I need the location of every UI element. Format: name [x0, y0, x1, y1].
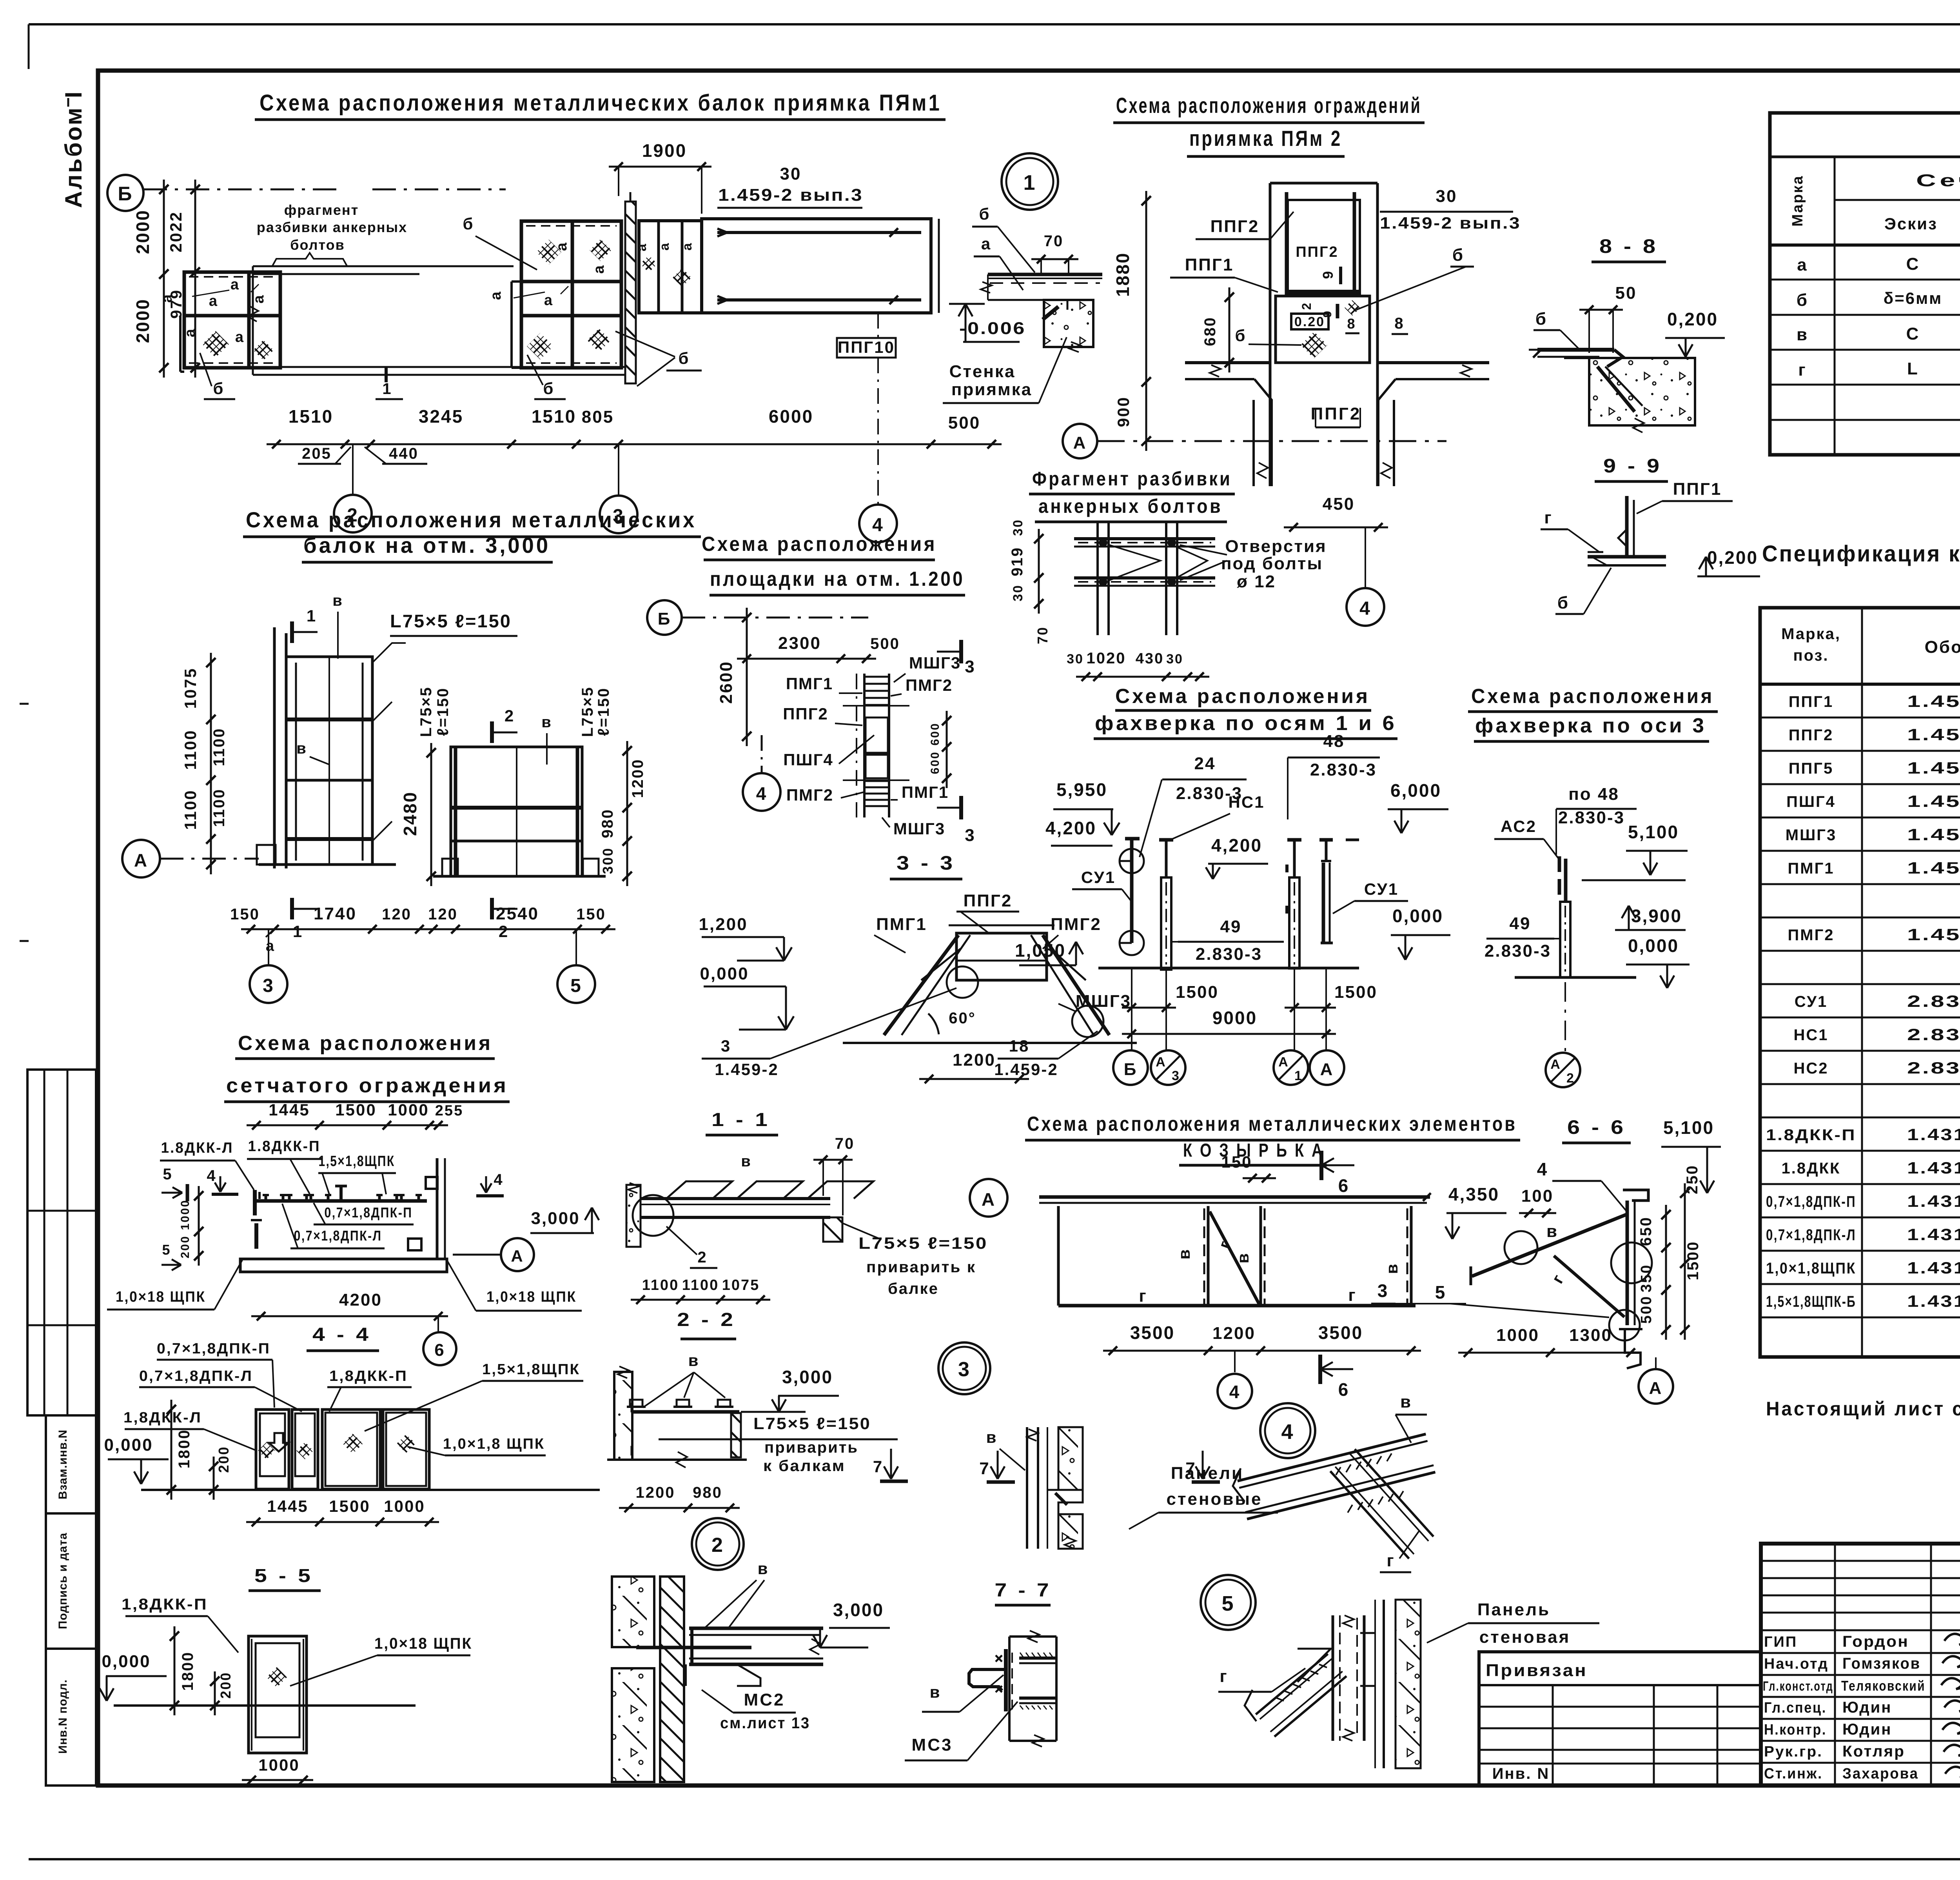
svg-text:3,900: 3,900: [1631, 906, 1682, 926]
svg-text:1200: 1200: [629, 759, 646, 798]
svg-text:0,7×1,8ДПК-П: 0,7×1,8ДПК-П: [1766, 1193, 1856, 1210]
svg-text:ППГ2: ППГ2: [1311, 404, 1361, 423]
section mark 1 frame A: [292, 607, 318, 941]
left bolt cluster: [180, 272, 280, 372]
hatch small cluster: [640, 255, 691, 287]
dim 450: [1284, 494, 1388, 588]
label dkk 5-5: [122, 1596, 238, 1653]
svg-text:а: а: [250, 294, 267, 303]
label 48 ref right: [1288, 732, 1380, 819]
frame B elevation: [433, 747, 606, 876]
svg-text:3,000: 3,000: [531, 1209, 580, 1228]
svg-text:а: а: [235, 329, 245, 345]
kozyrek flag 6 top: [1321, 1151, 1354, 1196]
svg-text:1.431-10: 1.431-10: [1907, 1192, 1960, 1210]
svg-text:1,050: 1,050: [1015, 940, 1066, 961]
svg-text:0,7×1,8ДПК-Л: 0,7×1,8ДПК-Л: [139, 1368, 253, 1384]
pyam2 channel walls: [1270, 183, 1377, 486]
svg-text:1900: 1900: [642, 140, 687, 161]
kozyrek dims bottom: [1103, 1322, 1421, 1355]
svg-text:60°: 60°: [949, 1010, 976, 1027]
svg-text:а: а: [159, 293, 175, 303]
svg-text:А: А: [1156, 1055, 1167, 1070]
svg-text:7: 7: [1185, 1459, 1196, 1478]
level 3000 2-2: [741, 1367, 839, 1412]
svg-text:1.431-10: 1.431-10: [1907, 1125, 1960, 1144]
svg-text:4200: 4200: [339, 1290, 382, 1310]
node circle 4 big: [1260, 1403, 1315, 1458]
label v MC3: [922, 1675, 1004, 1712]
ref 30 right: [1380, 187, 1521, 232]
axis circle 5: [557, 929, 595, 1003]
svg-text:680: 680: [1201, 316, 1219, 346]
spec row shpk: [1766, 1259, 1960, 1277]
svg-text:1100: 1100: [211, 728, 228, 767]
svg-text:70: 70: [1034, 626, 1051, 644]
label PPG1: [1637, 480, 1733, 514]
svg-text:б: б: [213, 379, 225, 398]
svg-text:5: 5: [1435, 1282, 1446, 1302]
svg-text:приямка ПЯм 2: приямка ПЯм 2: [1189, 126, 1342, 151]
svg-text:L75×5: L75×5: [579, 686, 596, 737]
kozyrek circle 4: [1218, 1351, 1252, 1408]
svg-text:3: 3: [721, 1037, 731, 1055]
svg-text:1075: 1075: [181, 667, 200, 708]
svg-text:Б: Б: [1124, 1060, 1138, 1079]
svg-text:0,000: 0,000: [1392, 906, 1443, 926]
hatch doors 4-4: [258, 1433, 416, 1459]
svg-text:б: б: [1235, 326, 1247, 345]
panel stenovaya label: [1427, 1600, 1599, 1647]
svg-text:2.830-3: 2.830-3: [1907, 1059, 1960, 1077]
axis circle B: [107, 175, 506, 211]
svg-text:ПМГ2: ПМГ2: [1051, 915, 1102, 934]
spec row ppg2: [1789, 725, 1960, 744]
title setchatoe: [224, 1032, 510, 1102]
axis3 ground: [1515, 976, 1636, 979]
svg-text:СУ1: СУ1: [1795, 993, 1828, 1010]
title 4-4: [307, 1324, 379, 1351]
svg-text:L75×5 ℓ=150: L75×5 ℓ=150: [390, 611, 512, 631]
svg-text:Панели: Панели: [1171, 1464, 1244, 1483]
svg-text:под болты: под болты: [1221, 554, 1323, 573]
dim 2022 979: [167, 180, 200, 378]
svg-text:3: 3: [263, 975, 274, 996]
svg-text:а: а: [266, 938, 275, 954]
margin label inv: [46, 1649, 96, 1786]
svg-text:ППГ2: ППГ2: [1210, 217, 1259, 236]
svg-text:Юдин: Юдин: [1842, 1721, 1892, 1738]
svg-text:9 - 9: 9 - 9: [1603, 455, 1662, 477]
title fachwerk 1 6: [1094, 685, 1397, 739]
svg-text:Котляр: Котляр: [1842, 1743, 1905, 1760]
svg-text:стеновые: стеновые: [1166, 1489, 1262, 1509]
svg-text:1.459-2: 1.459-2: [1907, 925, 1960, 944]
fachwerk level 4200 left: [1045, 818, 1112, 846]
svg-text:1075: 1075: [722, 1277, 760, 1293]
axis3 ref 49: [1485, 914, 1560, 961]
title 1-1: [706, 1110, 778, 1135]
svg-text:анкерных болтов: анкерных болтов: [1038, 495, 1223, 517]
frame A elevation: [257, 627, 396, 868]
svg-text:1.459-2: 1.459-2: [1907, 692, 1960, 710]
svg-text:1,0×18 ЩПК: 1,0×18 ЩПК: [374, 1635, 472, 1652]
dims 1-1: [631, 1277, 770, 1304]
svg-text:а: а: [488, 291, 504, 300]
svg-text:1,8ДКК-П: 1,8ДКК-П: [329, 1368, 408, 1384]
svg-text:а: а: [657, 242, 672, 251]
svg-text:ø 12: ø 12: [1237, 572, 1276, 591]
svg-text:1100: 1100: [682, 1277, 719, 1293]
svg-text:4: 4: [1359, 598, 1371, 619]
svg-text:3245: 3245: [419, 406, 463, 427]
axis circle 2: [334, 444, 372, 532]
svg-text:2: 2: [505, 707, 515, 725]
svg-text:а: а: [230, 276, 240, 293]
svg-text:б: б: [1535, 309, 1547, 329]
svg-text:в: в: [1383, 1263, 1401, 1274]
axis3 levels: [1582, 822, 1690, 988]
section mark 2 frame B: [492, 707, 517, 941]
album label: [60, 90, 87, 208]
svg-text:Гомзяков: Гомзяков: [1842, 1655, 1921, 1672]
svg-text:δ=6мм: δ=6мм: [1884, 289, 1943, 307]
svg-text:а: а: [634, 243, 649, 251]
spec row pmg2: [1788, 925, 1960, 944]
svg-text:1500: 1500: [1176, 983, 1219, 1002]
svg-text:70: 70: [1044, 233, 1064, 250]
level 3000 MC2: [813, 1600, 890, 1647]
pyam2 mid box: [1276, 296, 1370, 363]
label 2 1-1: [666, 1226, 717, 1268]
svg-text:стеновая: стеновая: [1479, 1628, 1571, 1647]
fragment note holes: [1180, 537, 1327, 591]
svg-text:1.459-2 вып.3: 1.459-2 вып.3: [1380, 214, 1521, 232]
elevation 4-4: [104, 1400, 600, 1500]
axis circle A kozyrek: [970, 1179, 1007, 1217]
svg-text:Схема расположения: Схема расположения: [238, 1032, 493, 1055]
axis circle 4 ploshchadka: [743, 735, 780, 811]
svg-text:4: 4: [494, 1171, 503, 1188]
title fragment razbivki: [1029, 468, 1235, 522]
svg-text:балке: балке: [888, 1280, 939, 1297]
title scheme PYam2: [1113, 93, 1425, 156]
title 2-2: [677, 1310, 736, 1339]
margin grid: [27, 1070, 96, 1415]
svg-text:Панель: Панель: [1477, 1600, 1550, 1619]
svg-text:Обозначение: Обозначение: [1925, 638, 1960, 657]
svg-text:2: 2: [711, 1534, 724, 1557]
svg-text:2.830-3: 2.830-3: [1485, 941, 1551, 961]
6-6 bracket: [1471, 1190, 1652, 1368]
svg-text:Стенка: Стенка: [949, 362, 1016, 381]
v label frame B: [541, 714, 552, 765]
dim 70 1-1: [741, 1135, 855, 1215]
level 0000 right: [1391, 906, 1450, 960]
dim 680: [1201, 287, 1234, 372]
kozyrek flag 6 bottom: [1320, 1355, 1353, 1400]
vedomost headers: [1789, 171, 1960, 245]
svg-text:Подпись и дата: Подпись и дата: [56, 1533, 69, 1629]
svg-text:балок на отм. 3,000: балок на отм. 3,000: [303, 533, 550, 558]
svg-text:0,000: 0,000: [102, 1652, 151, 1671]
svg-text:5,950: 5,950: [1056, 779, 1107, 800]
panel wall right detail: [1360, 1600, 1421, 1768]
alpha labels left cluster: [159, 276, 267, 345]
label 4200 mid: [1206, 835, 1268, 879]
svg-text:1,0×1,8 ЩПК: 1,0×1,8 ЩПК: [443, 1436, 545, 1452]
svg-text:Схема расположения: Схема расположения: [1115, 685, 1370, 708]
svg-text:в: в: [741, 1153, 752, 1170]
svg-text:А: А: [1278, 1055, 1289, 1070]
hatch door 5-5: [267, 1667, 287, 1687]
svg-text:0,200: 0,200: [1707, 547, 1758, 568]
label b right lower: [615, 331, 702, 386]
label b small lower: [527, 355, 566, 399]
title 3-3: [890, 852, 962, 879]
svg-text:площадки на отм. 1.200: площадки на отм. 1.200: [710, 568, 965, 590]
svg-text:2: 2: [1566, 1071, 1575, 1086]
svg-text:205: 205: [302, 445, 332, 462]
svg-text:49: 49: [1220, 917, 1242, 936]
svg-text:ПМГ1: ПМГ1: [1788, 860, 1835, 877]
svg-text:450: 450: [1323, 494, 1355, 514]
svg-text:1: 1: [382, 380, 392, 398]
svg-text:-0.006: -0.006: [959, 319, 1026, 338]
beam 1-1: [641, 1181, 873, 1242]
svg-text:С: С: [1906, 254, 1920, 274]
svg-text:120: 120: [428, 906, 458, 923]
fachwerk posts right: [1287, 840, 1333, 968]
small cluster right of wall: [639, 221, 702, 313]
v label MC2: [706, 1559, 769, 1627]
svg-text:0,7×1,8ДПК-Л: 0,7×1,8ДПК-Л: [294, 1228, 382, 1244]
fachwerk ground: [1098, 967, 1359, 970]
svg-text:50: 50: [1615, 283, 1637, 303]
svg-text:1880: 1880: [1112, 252, 1133, 297]
svg-text:30: 30: [1067, 652, 1084, 667]
svg-text:24: 24: [1194, 754, 1216, 773]
svg-text:1,0×18 ЩПК: 1,0×18 ЩПК: [486, 1289, 577, 1305]
svg-text:4: 4: [207, 1167, 216, 1184]
svg-text:150: 150: [230, 906, 260, 923]
dim 2000 upper: [132, 180, 169, 378]
svg-text:440: 440: [389, 445, 419, 462]
kozyrek dim 150: [1221, 1153, 1276, 1182]
svg-text:500: 500: [870, 635, 900, 652]
svg-text:приямка: приямка: [951, 380, 1032, 399]
svg-text:5: 5: [1221, 1592, 1234, 1615]
svg-text:18: 18: [1009, 1037, 1030, 1055]
vedomost row g: [1798, 359, 1960, 380]
stamp roles: [1763, 1634, 1833, 1782]
svg-text:а: а: [209, 293, 218, 309]
svg-text:1.459-2: 1.459-2: [1907, 859, 1960, 877]
spec row pmg1: [1788, 859, 1960, 877]
svg-text:в: в: [930, 1683, 941, 1701]
node5 weld ticks: [1276, 1664, 1327, 1701]
svg-text:Фрагмент разбивки: Фрагмент разбивки: [1032, 468, 1232, 490]
svg-text:1800: 1800: [176, 1429, 193, 1469]
spec row dpkp: [1766, 1192, 1960, 1210]
svg-text:30: 30: [780, 164, 802, 183]
spec headers: [1781, 625, 1960, 665]
dim 1880 900: [1112, 191, 1151, 451]
svg-text:1: 1: [307, 607, 317, 625]
svg-text:в: в: [1546, 1222, 1558, 1241]
svg-text:ППГ1: ППГ1: [1185, 255, 1234, 274]
svg-text:3: 3: [1172, 1068, 1180, 1083]
svg-text:ГИП: ГИП: [1764, 1634, 1797, 1650]
svg-text:в: в: [332, 592, 343, 609]
svg-text:30: 30: [1011, 584, 1025, 601]
vedomost row a: [1797, 254, 1960, 274]
axis A line: [1063, 424, 1446, 458]
svg-text:СУ1: СУ1: [1364, 880, 1399, 898]
svg-text:ПМГ2: ПМГ2: [1788, 926, 1835, 944]
svg-text:919: 919: [1009, 547, 1026, 576]
svg-text:см.лист 13: см.лист 13: [720, 1715, 810, 1732]
svg-text:9: 9: [1320, 270, 1336, 279]
dims frame A left: [181, 653, 228, 874]
svg-text:6,000: 6,000: [1390, 780, 1441, 801]
svg-text:ППГ2: ППГ2: [1296, 244, 1338, 260]
kozyrek beam plan: [1039, 1193, 1431, 1306]
svg-text:2.830-3: 2.830-3: [1907, 1025, 1960, 1044]
svg-text:А: А: [511, 1247, 524, 1265]
svg-text:1740: 1740: [314, 904, 357, 923]
node4 weld ticks: [1336, 1453, 1403, 1513]
svg-text:1510: 1510: [532, 406, 576, 427]
svg-text:5: 5: [570, 975, 582, 996]
spec row ppg1: [1789, 692, 1960, 710]
svg-text:Взам.инв.N: Взам.инв.N: [56, 1430, 69, 1499]
stair refs: [702, 988, 1098, 1079]
dims 2-2: [619, 1484, 740, 1512]
9-9 labels: [1541, 508, 1760, 614]
pyam2 floor slab: [1185, 363, 1489, 486]
detail 9-9 angle: [1588, 496, 1666, 565]
svg-text:1,5×1,8ЩПК-Б: 1,5×1,8ЩПК-Б: [1766, 1293, 1856, 1310]
svg-text:3: 3: [958, 1358, 971, 1381]
svg-text:4 - 4: 4 - 4: [312, 1324, 371, 1345]
axis circle A left: [122, 840, 259, 877]
svg-text:Схема расположения: Схема расположения: [702, 533, 937, 556]
svg-text:120: 120: [382, 906, 412, 923]
svg-text:ППГ5: ППГ5: [1789, 760, 1833, 777]
svg-text:4: 4: [1537, 1159, 1548, 1179]
level 6000 right: [1346, 780, 1448, 840]
flag 7 right: [1185, 1451, 1220, 1482]
svg-text:1100: 1100: [181, 729, 200, 770]
svg-text:ППГ1: ППГ1: [1789, 693, 1833, 710]
svg-text:0.20: 0.20: [1294, 314, 1325, 329]
label v 2-2: [688, 1351, 700, 1370]
spec row ppg5: [1789, 759, 1960, 777]
svg-text:2: 2: [697, 1249, 707, 1266]
svg-text:1000: 1000: [258, 1756, 299, 1774]
svg-text:в: в: [986, 1428, 998, 1446]
svg-text:1000: 1000: [384, 1497, 425, 1515]
node circle 2: [692, 1518, 744, 1570]
svg-text:1.459-2 вып.3: 1.459-2 вып.3: [718, 185, 863, 205]
svg-text:2000: 2000: [132, 209, 153, 254]
svg-text:150: 150: [1221, 1153, 1252, 1171]
wall panel MC2 detail: [612, 1577, 823, 1782]
svg-text:Юдин: Юдин: [1842, 1699, 1892, 1716]
axis circle 4 pyam2: [1347, 588, 1384, 626]
svg-text:L75×5 ℓ=150: L75×5 ℓ=150: [858, 1234, 988, 1252]
node circle 3: [938, 1342, 990, 1394]
svg-text:Схема расположения металлическ: Схема расположения металлических элемент…: [1027, 1113, 1517, 1135]
svg-text:СУ1: СУ1: [1081, 868, 1116, 886]
svg-text:L75×5: L75×5: [417, 686, 435, 737]
flag 7 left: [979, 1428, 1025, 1482]
L75 labels frame B rot: [417, 686, 612, 737]
svg-text:г: г: [1348, 1286, 1356, 1305]
label L75 1-1: [843, 1223, 988, 1297]
svg-text:Схема расположения металлическ: Схема расположения металлических балок п…: [260, 90, 942, 116]
beam bottom lines: [253, 367, 625, 375]
svg-text:200: 200: [218, 1671, 234, 1698]
svg-text:2.830-3: 2.830-3: [1196, 945, 1262, 964]
spec row ns1: [1793, 1025, 1960, 1044]
title scheme PYam1: [255, 90, 946, 120]
spec row shpkb: [1766, 1292, 1960, 1310]
svg-text:А: А: [1320, 1060, 1334, 1079]
label SU1 right: [1333, 880, 1408, 914]
svg-text:500: 500: [948, 413, 980, 432]
svg-text:разбивки анкерных: разбивки анкерных: [257, 219, 407, 235]
kozyrek labels: [1139, 1238, 1401, 1306]
dim 1000 5-5: [242, 1756, 313, 1784]
svg-text:ППГ1: ППГ1: [1673, 480, 1722, 499]
flag 7 2-2: [873, 1449, 908, 1481]
svg-text:1: 1: [1294, 1068, 1303, 1083]
section flags 3: [937, 640, 976, 845]
svg-text:2: 2: [499, 922, 509, 941]
circle 6 of 4-4: [423, 1316, 456, 1365]
svg-text:Схема расположения: Схема расположения: [1471, 685, 1714, 708]
setka dims top: [247, 1101, 463, 1130]
svg-text:1500: 1500: [1334, 983, 1377, 1002]
panel 7-7 wall section: [1027, 1427, 1083, 1549]
dim 205 440: [298, 445, 427, 464]
alpha labels right cluster: [488, 242, 607, 309]
svg-text:1.459-2: 1.459-2: [1907, 759, 1960, 777]
svg-text:приварить: приварить: [764, 1439, 858, 1456]
svg-text:б: б: [979, 205, 991, 223]
label 49 ref: [1172, 917, 1284, 964]
svg-text:4: 4: [1229, 1382, 1241, 1402]
6-6 dims right: [1637, 1164, 1702, 1340]
svg-text:в: в: [296, 740, 307, 757]
svg-text:сетчатого ограждения: сетчатого ограждения: [226, 1074, 508, 1097]
doors 4-4: [256, 1410, 429, 1489]
label 24 ref: [1140, 754, 1247, 857]
svg-text:в: в: [1175, 1248, 1193, 1260]
svg-text:1,8ДКК-П: 1,8ДКК-П: [122, 1596, 208, 1613]
svg-text:0,7×1,8ДПК-П: 0,7×1,8ДПК-П: [157, 1341, 270, 1357]
label NS1 left: [1172, 793, 1265, 839]
svg-text:1.8ДКК: 1.8ДКК: [1782, 1160, 1841, 1177]
angle arc: [928, 1014, 939, 1034]
svg-text:Рук.гр.: Рук.гр.: [1764, 1744, 1823, 1760]
wall 2-2: [614, 1366, 632, 1460]
stamp names: [1841, 1633, 1926, 1782]
wall hatch strip D1: [625, 192, 636, 383]
node1 concrete block: [1044, 300, 1093, 352]
